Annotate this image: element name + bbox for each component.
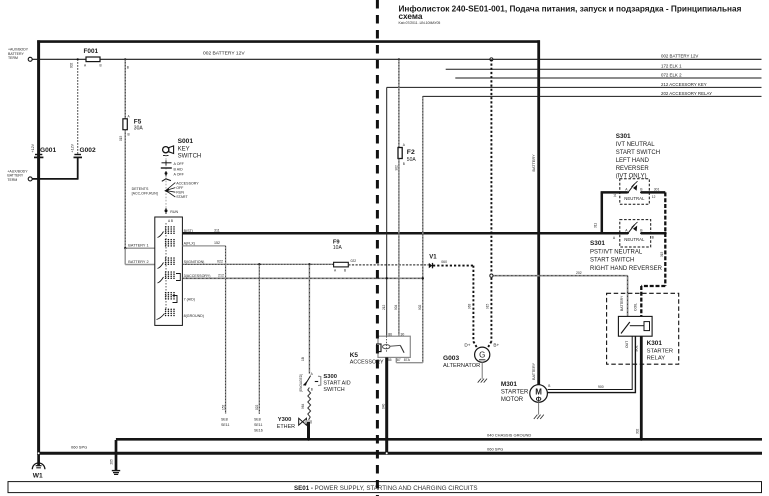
key switch detent arrow fan [132, 182, 200, 200]
svg-text:K5: K5 [350, 352, 359, 359]
svg-text:B: B [652, 236, 654, 240]
svg-text:10A: 10A [333, 245, 343, 251]
svg-text:311: 311 [594, 223, 598, 228]
svg-text:START SWITCH: START SWITCH [590, 258, 634, 264]
svg-text:STARTER: STARTER [501, 389, 529, 395]
svg-text:30: 30 [401, 332, 405, 336]
terminal +AUX/BODY BATTERY TERM (upper) [8, 48, 32, 62]
pin label 3(ACCESSORY) and wire 212 [182, 273, 422, 278]
svg-text:RUN: RUN [170, 210, 178, 214]
fuse F9 [333, 240, 356, 273]
svg-text:ETHER: ETHER [277, 424, 295, 430]
svg-text:схема: схема [399, 12, 423, 21]
svg-text:OUT: OUT [625, 341, 629, 348]
svg-text:IVT NEUTRAL: IVT NEUTRAL [616, 142, 656, 148]
pin label B(ST) and wire 311 [182, 228, 628, 233]
svg-text:904: 904 [394, 304, 398, 310]
svg-text:040: 040 [381, 403, 385, 409]
svg-text:A(FLX): A(FLX) [184, 242, 195, 246]
svg-text:START AID: START AID [323, 380, 350, 386]
switch S301 #2 box [613, 220, 654, 247]
svg-text:915: 915 [486, 303, 490, 309]
svg-text:REVERSER: REVERSER [616, 166, 650, 172]
svg-text:B+: B+ [493, 342, 499, 347]
svg-text:SE11: SE11 [221, 423, 230, 427]
svg-text:S001: S001 [178, 138, 194, 145]
svg-text:S300: S300 [323, 374, 337, 380]
svg-text:[ACC,OFF,RUN]: [ACC,OFF,RUN] [132, 192, 158, 196]
wire 315 S301 outputs to K301 coil [641, 192, 667, 316]
wire 002/902 with fuse F2 (battery row to K5 term 30) [394, 59, 416, 336]
switch S301 #1 box [613, 179, 655, 204]
svg-text:M301: M301 [501, 381, 517, 388]
svg-text:963: 963 [468, 303, 472, 309]
svg-text:900: 900 [598, 385, 604, 389]
svg-text:87A: 87A [404, 358, 411, 362]
wire 212 ACCESSORY KEY row [387, 86, 762, 88]
svg-text:311: 311 [214, 228, 220, 232]
svg-text:A B: A B [168, 219, 173, 223]
svg-text:7 (AID): 7 (AID) [184, 297, 195, 301]
svg-text:B: B [127, 65, 129, 69]
svg-text:152: 152 [221, 404, 225, 410]
svg-text:072 ELK 2: 072 ELK 2 [661, 72, 682, 77]
alternator G003 [443, 342, 500, 382]
svg-text:202 ACCESSORY RELAY: 202 ACCESSORY RELAY [661, 91, 712, 96]
svg-text:Инфолисток 240-SE01-001, Подач: Инфолисток 240-SE01-001, Подача питания,… [399, 5, 742, 14]
pin label A(FLX) and wire 152 [182, 241, 229, 427]
starter relay K301 [618, 295, 673, 362]
svg-text:3(ACCESSORY): 3(ACCESSORY) [184, 274, 211, 278]
svg-text:BATTERY: BATTERY [620, 295, 624, 311]
svg-text:ALTERNATOR: ALTERNATOR [443, 363, 480, 369]
diode V1 [429, 255, 447, 269]
svg-text:RELAY: RELAY [647, 356, 666, 362]
svg-text:START SWITCH: START SWITCH [616, 150, 660, 156]
key switch RUN position marker [165, 208, 179, 214]
svg-text:87: 87 [397, 358, 401, 362]
svg-text:+12V: +12V [31, 143, 35, 152]
svg-text:OFF: OFF [176, 186, 184, 190]
wire 002 battery row (terminal to F001) [32, 58, 86, 60]
svg-text:TERM: TERM [8, 56, 18, 60]
svg-text:LEFT HAND: LEFT HAND [616, 158, 650, 164]
svg-text:11: 11 [613, 194, 617, 198]
svg-text:W1: W1 [33, 473, 43, 480]
svg-text:301: 301 [654, 188, 660, 192]
svg-text:COIL: COIL [634, 303, 638, 311]
svg-text:964: 964 [301, 403, 305, 409]
svg-text:S301: S301 [590, 240, 605, 247]
relay K5 [350, 332, 411, 365]
battery G001 [31, 143, 56, 157]
svg-text:205: 205 [110, 459, 114, 465]
svg-text:KEY: KEY [178, 147, 190, 153]
starter motor M301 [501, 381, 547, 419]
wire terminal to G002 [32, 178, 78, 180]
svg-text:+12V: +12V [70, 143, 74, 152]
battery cable left (negative, to W1) [37, 40, 40, 454]
wire 022 drop to SE8/SE11/SE16 [254, 263, 263, 432]
svg-text:RIGHT HAND REVERSER: RIGHT HAND REVERSER [590, 266, 663, 272]
switch S300 START AID [299, 372, 351, 393]
svg-text:022: 022 [217, 259, 223, 263]
svg-text:BATTERY 2: BATTERY 2 [128, 260, 148, 264]
svg-text:002 BATTERY 12V: 002 BATTERY 12V [661, 53, 698, 58]
svg-text:002 BATTERY 12V: 002 BATTERY 12V [203, 50, 245, 56]
svg-text:Kat=07/2011 -UN-10MAY05: Kat=07/2011 -UN-10MAY05 [399, 21, 441, 25]
svg-text:G001: G001 [40, 147, 56, 154]
block contact dots rows [165, 226, 175, 316]
svg-text:060 SPG: 060 SPG [487, 447, 503, 452]
svg-text:(ENGAGED): (ENGAGED) [299, 374, 303, 392]
neutral start switch S301 (PST/IVT, right hand) text [590, 240, 663, 272]
svg-text:212: 212 [382, 304, 386, 310]
svg-text:G003: G003 [443, 355, 459, 362]
wire 060 V1 to alternator D+ [433, 266, 477, 349]
svg-text:M: M [535, 387, 542, 396]
svg-text:BATTERY: BATTERY [532, 362, 536, 380]
svg-text:B: B [100, 64, 102, 68]
svg-text:BATTERY: BATTERY [532, 154, 536, 172]
svg-text:040 CHASSIS GROUND: 040 CHASSIS GROUND [487, 433, 531, 438]
svg-text:060 SPG: 060 SPG [71, 445, 87, 450]
svg-text:F001: F001 [84, 48, 99, 55]
svg-text:B: B [311, 388, 313, 392]
svg-text:85: 85 [388, 358, 392, 362]
svg-text:B: B [403, 162, 405, 166]
svg-text:SE8: SE8 [254, 418, 261, 422]
wire 060 SPG horizontal [39, 452, 762, 455]
svg-text:G: G [479, 351, 485, 360]
neutral start switch S301 (IVT, left hand) text [616, 133, 660, 179]
svg-text:A OFF: A OFF [174, 162, 185, 166]
svg-text:022: 022 [351, 259, 357, 263]
svg-text:SWITCH: SWITCH [323, 387, 344, 393]
svg-text:30A: 30A [134, 126, 144, 132]
svg-text:202: 202 [576, 271, 582, 275]
wire 040 chassis ground horizontal [116, 438, 762, 441]
wire 202 to starter relay (from B+ junction) [490, 271, 628, 317]
wire K5 85 to ground (thick) [381, 357, 387, 454]
svg-text:F5: F5 [134, 118, 142, 125]
battery G002 [70, 59, 96, 179]
svg-text:B: B [128, 133, 130, 137]
pin label S(IGNITION) and wire 022 [182, 259, 333, 264]
svg-text:F2: F2 [407, 149, 415, 156]
wire 301 from S301 #1 [641, 188, 665, 193]
svg-text:G002: G002 [80, 147, 96, 154]
svg-text:Y300: Y300 [278, 417, 292, 423]
svg-text:022: 022 [255, 404, 259, 410]
fuse F001 [84, 48, 102, 67]
main positive bus (top thick wire) [37, 40, 540, 43]
wire 311 riser to S301 #1 [594, 192, 628, 233]
svg-text:B: B [548, 384, 550, 388]
svg-text:902: 902 [395, 165, 399, 171]
chassis ground symbol (left, x=116) [110, 440, 121, 474]
page break dashed line [376, 0, 379, 496]
svg-text:50A: 50A [407, 157, 417, 163]
svg-text:DETENTS: DETENTS [132, 187, 149, 191]
svg-text:TERM: TERM [7, 178, 17, 182]
svg-text:V1: V1 [429, 255, 437, 261]
wire 202 ACCESSORY RELAY row [423, 95, 762, 97]
svg-text:NEUTRAL: NEUTRAL [624, 196, 645, 201]
svg-text:SE01 - POWER SUPPLY, STARTING: SE01 - POWER SUPPLY, STARTING AND CHARGI… [294, 485, 477, 492]
wire 900 K301 OUT to starter motor (double line) [548, 336, 636, 392]
key switch S001 contact block [155, 217, 183, 325]
valve Y300 ETHER [277, 417, 312, 440]
wire 172 ELK 1 row [446, 68, 762, 70]
svg-text:172 ELK 1: 172 ELK 1 [661, 64, 682, 69]
svg-text:STARTER: STARTER [647, 349, 674, 355]
svg-text:SE11: SE11 [254, 423, 263, 427]
wire S300 to Y300 (element zigzag) [301, 388, 311, 420]
svg-text:A OFF: A OFF [174, 172, 185, 176]
key switch S001 icon and labels [163, 138, 202, 160]
svg-text:060: 060 [441, 260, 447, 264]
bottom banner [8, 482, 762, 493]
junction dots battery row [77, 58, 79, 60]
wire 022 F9 to V1 [348, 264, 429, 266]
svg-text:SE16: SE16 [254, 428, 263, 432]
svg-text:B: B [344, 269, 346, 273]
svg-text:8(GROUND): 8(GROUND) [184, 314, 204, 318]
terminal +AUX/BODY BATTERY TERM (lower) [7, 169, 78, 181]
svg-text:D+: D+ [464, 342, 470, 347]
svg-text:ACCESSORY: ACCESSORY [176, 182, 199, 186]
wire 915 battery row to alternator B+ [486, 59, 492, 348]
wire 022 drop to S300 [301, 263, 311, 374]
wire BATTERY 2 into key switch [125, 248, 155, 264]
svg-text:S(IGNITION): S(IGNITION) [184, 260, 205, 264]
block left contacts [157, 232, 181, 320]
wire BATTERY 1 into key switch [124, 243, 155, 249]
svg-text:152: 152 [214, 241, 220, 245]
ground stud W1 [32, 452, 45, 479]
wire 072 ELK 2 row [455, 77, 761, 79]
wire 212 drop from ACCESSORY KEY row to K5 (x=386.7) [382, 87, 388, 336]
svg-text:B AID: B AID [174, 168, 184, 172]
svg-text:12: 12 [652, 195, 656, 199]
starter relay K301 dashed box [607, 293, 679, 364]
svg-text:RUN: RUN [176, 191, 184, 195]
svg-text:302: 302 [636, 428, 640, 434]
svg-text:PST/IVT NEUTRAL: PST/IVT NEUTRAL [590, 249, 643, 255]
svg-text:BATTERY 1: BATTERY 1 [128, 243, 148, 247]
svg-text:SE8: SE8 [221, 418, 228, 422]
svg-text:315: 315 [660, 251, 664, 257]
svg-text:015: 015 [119, 135, 123, 141]
svg-text:212: 212 [218, 273, 224, 277]
svg-text:212 ACCESSORY KEY: 212 ACCESSORY KEY [661, 82, 707, 87]
svg-text:86: 86 [388, 332, 392, 336]
battery cable right (to starter motor M301) [537, 40, 540, 385]
wire 202 drop from ACCESSORY RELAY row to K5 term 87 [396, 96, 424, 362]
svg-text:SWITCH: SWITCH [178, 154, 202, 160]
title text [399, 5, 742, 25]
svg-text:S301: S301 [616, 133, 631, 140]
svg-text:K301: K301 [647, 340, 663, 347]
key switch detent symbols column [161, 155, 185, 208]
svg-text:START: START [176, 195, 188, 199]
wire K301 coil to ground (thick) [636, 336, 643, 441]
svg-text:902: 902 [418, 304, 422, 310]
wire 002 battery row (F001 to right edge) [100, 58, 762, 60]
svg-text:1B: 1B [301, 357, 305, 361]
svg-text:MOTOR: MOTOR [501, 397, 524, 403]
svg-text:NEUTRAL: NEUTRAL [624, 237, 645, 242]
fuse F5 with wire [119, 59, 144, 248]
svg-text:002: 002 [70, 62, 74, 68]
